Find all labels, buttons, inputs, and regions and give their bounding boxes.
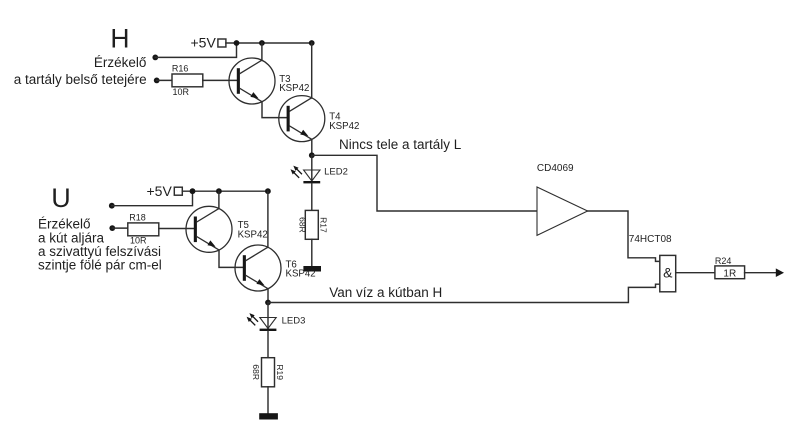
node H electrode terminal [152,55,158,61]
resistor R17 [305,210,318,239]
svg-text:1R: 1R [723,268,736,279]
svg-text:R16: R16 [172,64,189,74]
svg-text:R19: R19 [275,364,285,380]
svg-text:Érzékelő: Érzékelő [94,55,147,70]
svg-text:+5V: +5V [146,183,172,199]
junction on +5V rail (U) 3 [265,188,271,194]
wire LED3 anode [267,303,269,329]
resistor R19 [262,358,275,387]
wire H electrode to +5V rail [155,43,236,57]
output arrow [776,268,784,277]
transistor T6 [235,245,281,291]
svg-text:KSP42: KSP42 [238,229,268,240]
svg-text:10R: 10R [130,236,147,246]
LED2 emission arrows [291,166,302,178]
svg-text:Van víz a kútban H: Van víz a kútban H [329,285,442,300]
inverter U1 CD4069 buffer triangle [537,187,588,235]
wire LED3 cathode to R19 [267,331,269,358]
svg-text:&: & [663,264,673,280]
svg-text:a tartály belső tetejére: a tartály belső tetejére [14,72,147,87]
wire +5V rail (U) [182,190,268,192]
wire T3 emitter to T4 base [262,102,287,118]
svg-text:68R: 68R [251,364,261,380]
wire R19 to ground [267,387,269,413]
wire AND output to R24 [676,272,715,274]
svg-text:H: H [110,23,129,53]
wire LED2 anode [311,155,313,181]
wire LED2 cathode to R17 [311,183,313,210]
junction on +5V rail (H) 2 [259,40,265,46]
svg-text:CD4069: CD4069 [537,163,574,174]
junction on +5V rail (H) 3 [309,40,315,46]
wire T5 collector to rail [218,191,220,209]
wire +5V rail (H) [226,42,312,44]
LED3 emission arrows [247,313,258,325]
junction on +5V rail (U) 1 [190,188,196,194]
LED D3 symbol [260,318,276,329]
wire T4 collector to rail [311,43,313,98]
svg-text:R17: R17 [319,217,329,233]
svg-text:+5V: +5V [190,34,216,50]
wire U electrode to +5V rail [112,191,193,206]
junction T4 emitter / LED2 node [309,152,315,158]
wire inverter output to AND gate input A [588,211,660,261]
ground (R17 column) [303,266,321,272]
LED D2 symbol [304,170,320,181]
junction T6 emitter / LED3 node [265,300,271,306]
node U sense terminal [109,225,115,231]
transistor T4 [279,96,325,142]
svg-text:KSP42: KSP42 [286,268,316,279]
svg-text:szintje fölé pár cm-el: szintje fölé pár cm-el [38,258,162,273]
wire T6 emitter to node [267,289,269,303]
ground (R19 column) [259,413,278,419]
svg-text:10R: 10R [173,87,190,97]
svg-text:74HCT08: 74HCT08 [629,234,672,245]
wire T5 emitter to T6 base [219,250,244,267]
svg-text:R24: R24 [715,256,732,266]
wire R24 to output arrow [745,272,777,274]
svg-text:LED2: LED2 [324,166,348,177]
resistor R18 [128,223,159,236]
svg-text:68R: 68R [298,217,308,233]
node H sense terminal [154,78,160,84]
wire R18 to T5 base [159,228,194,230]
AND gate U2 74HCT08 [660,255,676,291]
resistor R16 [172,74,203,87]
wire sense terminal to R16 [157,79,172,81]
wire R16 to T3 base [203,79,238,81]
wire T6 collector to rail [267,191,269,247]
wire T3 collector to rail [261,43,263,60]
node U electrode terminal [109,203,115,209]
svg-text:R18: R18 [129,213,146,223]
wire node to CD4069 input [312,155,537,211]
resistor R24 [715,266,745,279]
svg-text:LED3: LED3 [282,315,306,326]
svg-text:KSP42: KSP42 [279,83,309,94]
svg-text:KSP42: KSP42 [329,121,359,132]
svg-text:Nincs tele a tartály L: Nincs tele a tartály L [339,137,462,152]
wire R17 to ground [311,239,313,266]
transistor T5 [186,206,232,252]
wire node to AND gate input B [268,284,660,302]
junction on +5V rail (H) 1 [234,40,240,46]
transistor T3 [229,58,275,104]
wire sense terminal to R18 [112,227,128,229]
svg-text:U: U [51,183,71,213]
wire T4 emitter to node [311,139,313,155]
junction on +5V rail (U) 2 [216,188,222,194]
